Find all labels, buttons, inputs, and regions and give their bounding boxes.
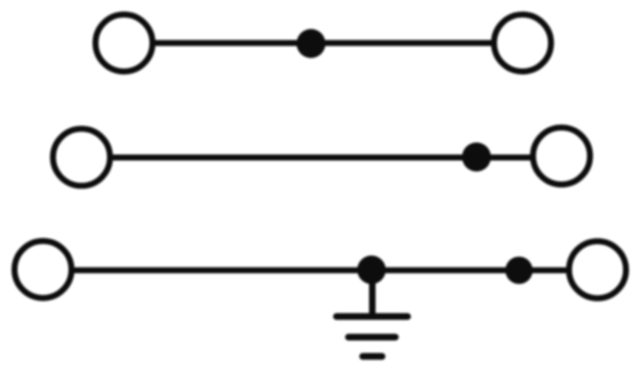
ground: earth symbol bar 2 xyxy=(349,334,396,341)
junction dot: level 3 bridge tap xyxy=(505,257,532,284)
junction dot: level 2 bridge tap xyxy=(462,143,491,172)
terminal circle: level 1 left clamp xyxy=(96,15,153,72)
terminal circle: level 3 right clamp xyxy=(569,241,626,298)
terminal circle: level 1 right clamp xyxy=(494,15,551,72)
ground: earth symbol bar 1 xyxy=(337,313,408,320)
junction dot: level 1 bridge tap xyxy=(297,29,326,58)
ground: earth symbol bar 3 xyxy=(363,353,382,360)
wire: level 2 conductor xyxy=(108,155,535,161)
terminal circle: level 3 left clamp xyxy=(15,241,72,298)
wire: level 1 conductor xyxy=(150,40,496,46)
junction dot: level 3 ground tap xyxy=(357,255,386,284)
wire: level 3 conductor xyxy=(70,267,571,273)
terminal circle: level 2 left clamp xyxy=(53,129,110,186)
terminal circle: level 2 right clamp xyxy=(533,128,590,185)
wire: vertical drop to earth xyxy=(369,274,376,317)
